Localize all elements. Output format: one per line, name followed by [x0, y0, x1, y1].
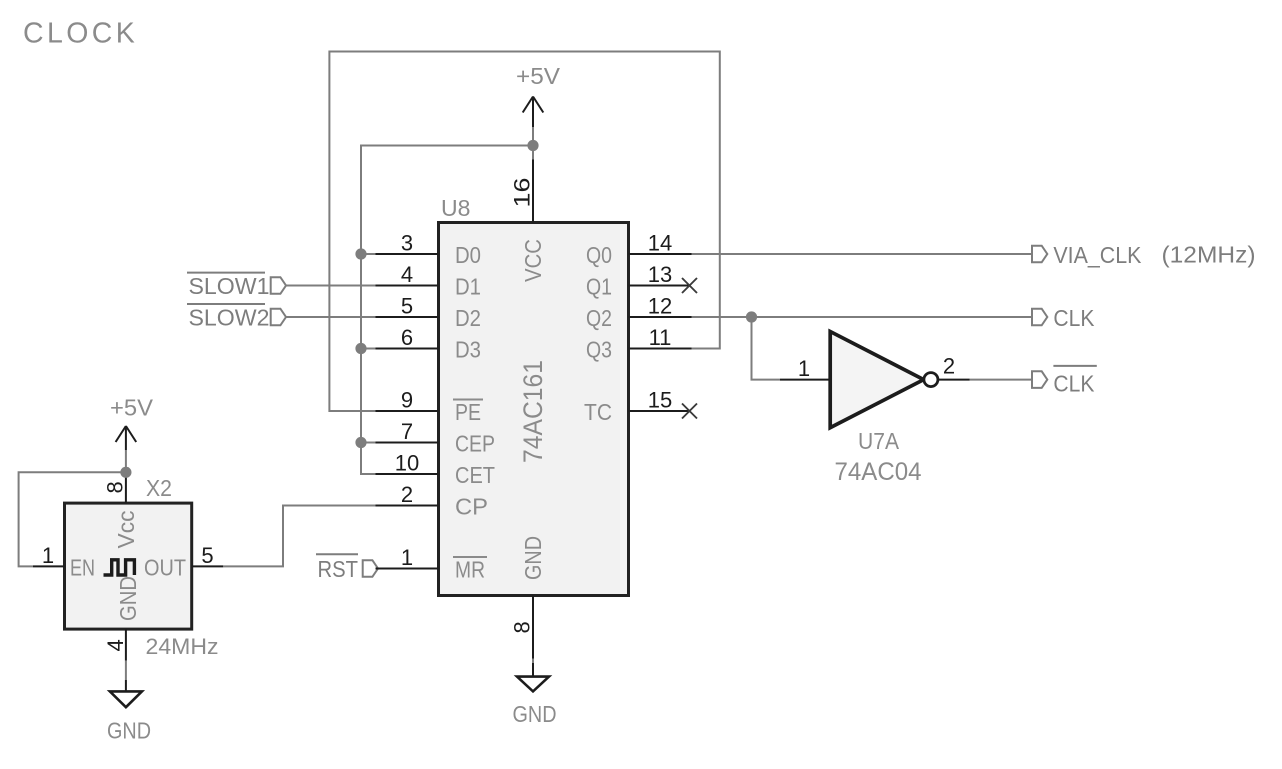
svg-text:Q1: Q1 [586, 274, 612, 300]
svg-text:D1: D1 [455, 274, 481, 300]
svg-text:7: 7 [401, 419, 413, 444]
svg-text:15: 15 [648, 388, 672, 413]
svg-text:(12MHz): (12MHz) [1162, 242, 1256, 268]
pin 3 (D0) [376, 231, 482, 269]
svg-text:1: 1 [401, 545, 413, 570]
wire: X2 OUT to CP [223, 506, 375, 567]
svg-text:5: 5 [401, 294, 413, 319]
pin 12 (Q2) [586, 294, 692, 332]
hierarchical label VIA_CLK [1032, 242, 1142, 268]
hierarchical label CLK [1032, 305, 1095, 331]
svg-text:CLK: CLK [1053, 305, 1095, 331]
svg-text:24MHz: 24MHz [146, 634, 219, 659]
svg-text:2: 2 [943, 353, 955, 378]
pin 1 (EN) [33, 543, 95, 581]
pin 2 (CP) [376, 482, 489, 520]
svg-text:9: 9 [401, 388, 413, 413]
pin 1 (MR, active low) [376, 545, 488, 583]
svg-text:GND: GND [513, 701, 557, 727]
wire: stub to D3 [361, 348, 376, 350]
pin 16 (VCC) [510, 160, 547, 283]
svg-text:GND: GND [115, 576, 141, 621]
svg-text:14: 14 [648, 231, 672, 256]
svg-text:EN: EN [70, 555, 95, 581]
svg-text:Q3: Q3 [586, 337, 612, 363]
svg-text:CEP: CEP [455, 431, 495, 457]
svg-text:74AC161: 74AC161 [518, 360, 548, 463]
junction on CLK at inverter tap [746, 311, 757, 322]
svg-text:CET: CET [455, 462, 495, 488]
wire: EN to +5V loop [19, 472, 126, 566]
junction on +5V at X2 pin 8 [120, 467, 131, 478]
svg-text:CLK: CLK [1053, 371, 1095, 397]
inverter U7A 74AC04 [780, 332, 970, 487]
svg-text:4: 4 [401, 262, 413, 287]
counter U8 74AC161 [376, 160, 698, 659]
pin 13 (Q1) with no-connect [586, 262, 697, 300]
clock waveform glyph [104, 560, 135, 575]
svg-text:8: 8 [510, 621, 535, 633]
U8 body [439, 223, 629, 596]
junction on CEP [355, 437, 366, 448]
junction on D3 [355, 343, 366, 354]
pin 4 (GND) [103, 576, 141, 661]
pin 10 (CET) [376, 451, 496, 489]
ground symbol below X2 [107, 661, 151, 744]
svg-text:8: 8 [103, 481, 128, 493]
power +5V above U8 [516, 63, 561, 160]
svg-text:PE: PE [455, 399, 481, 425]
svg-text:2: 2 [401, 482, 413, 507]
wire: PE to Q3 feedback loop [329, 52, 719, 412]
svg-text:CP: CP [455, 494, 488, 520]
junction on D0 [355, 248, 366, 259]
power +5V above X2 [110, 395, 154, 472]
pin 9 (PE, active low) [376, 388, 484, 426]
svg-text:TC: TC [584, 399, 612, 425]
svg-text:CLOCK: CLOCK [23, 18, 138, 50]
wire: Q0 to VIA_CLK [692, 253, 1033, 255]
hierarchical label SLOW1 [187, 273, 376, 299]
ground symbol below U8 [513, 659, 557, 728]
svg-text:X2: X2 [146, 475, 172, 501]
pin 6 (D3) [376, 325, 482, 363]
pin 5 (D2) [376, 294, 482, 332]
pin 5 (OUT) [144, 543, 223, 581]
svg-text:13: 13 [648, 262, 672, 287]
hierarchical label SLOW2 [187, 304, 376, 331]
svg-text:16: 16 [510, 178, 535, 208]
svg-text:10: 10 [395, 451, 419, 476]
svg-text:1: 1 [42, 543, 54, 568]
svg-text:U7A: U7A [858, 428, 900, 454]
pin 1 (input) [780, 379, 830, 381]
svg-text:6: 6 [401, 325, 413, 350]
svg-text:1: 1 [798, 356, 810, 381]
pin 11 (Q3) [586, 325, 692, 363]
pin 2 (output) [938, 379, 970, 381]
svg-text:Q0: Q0 [586, 242, 612, 268]
svg-text:D2: D2 [455, 305, 481, 331]
X2 body [65, 503, 192, 629]
svg-text:D0: D0 [455, 242, 481, 268]
wire: CLK tap down to inverter input [752, 317, 781, 380]
pin 15 (TC) with no-connect [584, 388, 697, 426]
hierarchical label RST [316, 554, 378, 582]
oscillator X2 24MHz [33, 472, 223, 661]
pin 8 (Vcc) [103, 472, 139, 549]
pin 14 (Q0) [586, 231, 692, 269]
pin 8 (GND) [510, 536, 547, 659]
svg-text:4: 4 [103, 639, 128, 651]
svg-text:Vcc: Vcc [113, 511, 139, 549]
pin 7 (CEP) [376, 419, 496, 457]
svg-text:Q2: Q2 [586, 305, 612, 331]
wire: stub to D0 [361, 253, 376, 255]
svg-text:SLOW2: SLOW2 [189, 305, 270, 331]
svg-text:U8: U8 [441, 195, 470, 221]
svg-text:SLOW1: SLOW1 [189, 273, 270, 299]
svg-text:3: 3 [401, 231, 413, 256]
svg-text:VCC: VCC [520, 239, 546, 282]
svg-text:GND: GND [520, 536, 546, 580]
inversion bubble [924, 373, 938, 387]
svg-text:74AC04: 74AC04 [835, 458, 922, 486]
svg-text:+5V: +5V [110, 395, 154, 421]
wire: Q2 to CLK [692, 316, 1033, 318]
svg-text:OUT: OUT [144, 555, 186, 581]
pin 4 (D1) [376, 262, 482, 300]
svg-text:12: 12 [648, 294, 672, 319]
hierarchical label CLK-bar [1032, 366, 1097, 397]
wire: +5V vertical bus to D0/D3/CEP/CET [361, 146, 533, 475]
svg-text:RST: RST [318, 556, 359, 582]
svg-text:MR: MR [455, 557, 485, 583]
wire: inverter output to CLK-bar [970, 379, 1033, 381]
wire: stub to CEP [361, 442, 376, 444]
svg-text:GND: GND [107, 718, 151, 744]
svg-text:11: 11 [649, 325, 672, 350]
svg-text:5: 5 [201, 543, 213, 568]
junction on +5V at pin 16 [527, 140, 538, 151]
svg-text:+5V: +5V [516, 63, 561, 89]
svg-text:D3: D3 [455, 337, 481, 363]
svg-text:VIA_CLK: VIA_CLK [1053, 242, 1142, 268]
U7A triangle body [830, 332, 924, 428]
